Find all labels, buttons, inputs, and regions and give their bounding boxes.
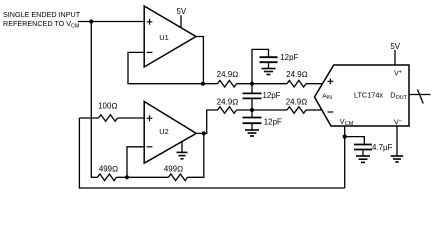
wire V- to ground [396,126,398,156]
wire to capacitor C1 [252,49,269,83]
svg-text:VCM: VCM [340,117,354,127]
wire top row segment 1 [203,83,217,85]
capacitor C4 4.7uF [354,145,372,150]
capacitor C1 stub [268,62,270,68]
U1 - sign [147,51,153,53]
resistor R4 499 [169,174,188,181]
ADC LTC174x outline [315,65,410,126]
svg-text:24.9Ω: 24.9Ω [217,70,238,79]
node U2 output junction [202,131,206,135]
node feedback junction [125,175,129,179]
node VCM junction [343,135,347,139]
capacitor C2 stub bottom [251,98,253,110]
wire U2 output [196,110,217,133]
svg-text:V+: V+ [394,69,402,78]
svg-text:100Ω: 100Ω [98,102,117,111]
svg-text:5V: 5V [176,7,186,16]
resistor R3 499 [98,174,117,181]
svg-text:DOUT: DOUT [390,91,407,101]
wire resistor R1 to U2 + [118,117,145,119]
U2 - sign [147,146,153,148]
5V supply U1 stub [180,15,182,28]
svg-text:U2: U2 [159,127,168,136]
wire top row to AIN+ [306,83,323,85]
wire VCM pin [344,126,346,188]
svg-text:499Ω: 499Ω [164,165,183,174]
svg-text:12pF: 12pF [263,91,281,100]
wire U1 output [196,37,203,84]
node U1 output junction [201,82,205,86]
wire U1 feedback [128,52,203,83]
svg-text:24.9Ω: 24.9Ω [286,97,307,106]
svg-text:U1: U1 [159,33,168,42]
DOUT bus slash [418,90,424,104]
wire VCM bottom rail [79,118,344,188]
resistor R5 24.9 [218,80,237,87]
capacitor C2 stub top [251,84,253,94]
resistor R7 24.9 [218,107,237,114]
svg-text:24.9Ω: 24.9Ω [286,70,307,79]
node top row junction [250,82,254,86]
capacitor C1 12pF [260,57,278,62]
capacitor C3 12pF [243,118,262,124]
wire U2 - input [127,147,144,178]
ground under V- [391,155,404,157]
wire R3 to feedback junction [117,176,128,178]
svg-text:499Ω: 499Ω [99,165,118,174]
capacitor C3 stub 2 [251,123,253,130]
U2 + sign [147,115,153,121]
svg-text:AIN: AIN [322,93,332,101]
svg-text:4.7µF: 4.7µF [372,143,393,152]
svg-text:REFERENCED TO VCM: REFERENCED TO VCM [3,19,80,29]
resistor R1 100 [99,115,118,122]
wire R4 to U2 output [188,133,204,177]
wire VCM to capacitor C4 [345,137,365,145]
wire bottom row to AIN- [306,109,322,111]
resistor R8 24.9 [287,107,306,114]
svg-text:SINGLE ENDED INPUT: SINGLE ENDED INPUT [3,10,81,19]
op-amp U1 [144,6,196,67]
ground under C3 [245,129,259,131]
wire bottom row segment 2 [237,109,288,111]
svg-text:24.9Ω: 24.9Ω [217,97,238,106]
svg-text:LTC174x: LTC174x [354,91,383,100]
capacitor C4 stub [362,150,364,157]
wire input to U1 + [78,21,144,23]
ground under U2 [177,151,188,153]
resistor R6 24.9 [287,80,306,87]
node bottom row junction [250,108,254,112]
wire top row segment 2 [237,83,288,85]
capacitor C2 12pF [243,93,262,98]
5V supply ADC stub [394,50,396,65]
wire feedback junction to R4 [127,176,169,178]
op-amp U2 [144,102,196,164]
ADC + sign [328,79,334,85]
ground under C4 [356,155,370,157]
wire input down to resistor R3 [91,22,97,178]
svg-text:5V: 5V [390,42,400,51]
ground stub U2 [181,142,183,152]
svg-text:12pF: 12pF [264,118,282,127]
svg-text:12pF: 12pF [280,53,298,62]
U1 + sign [147,19,153,25]
capacitor C3 stub [251,110,253,118]
wire DOUT [409,94,431,96]
node input junction [89,19,93,23]
ADC - sign [328,111,334,113]
ground under C1 [262,68,276,70]
wire VCM rail to resistor R1 [79,117,98,119]
